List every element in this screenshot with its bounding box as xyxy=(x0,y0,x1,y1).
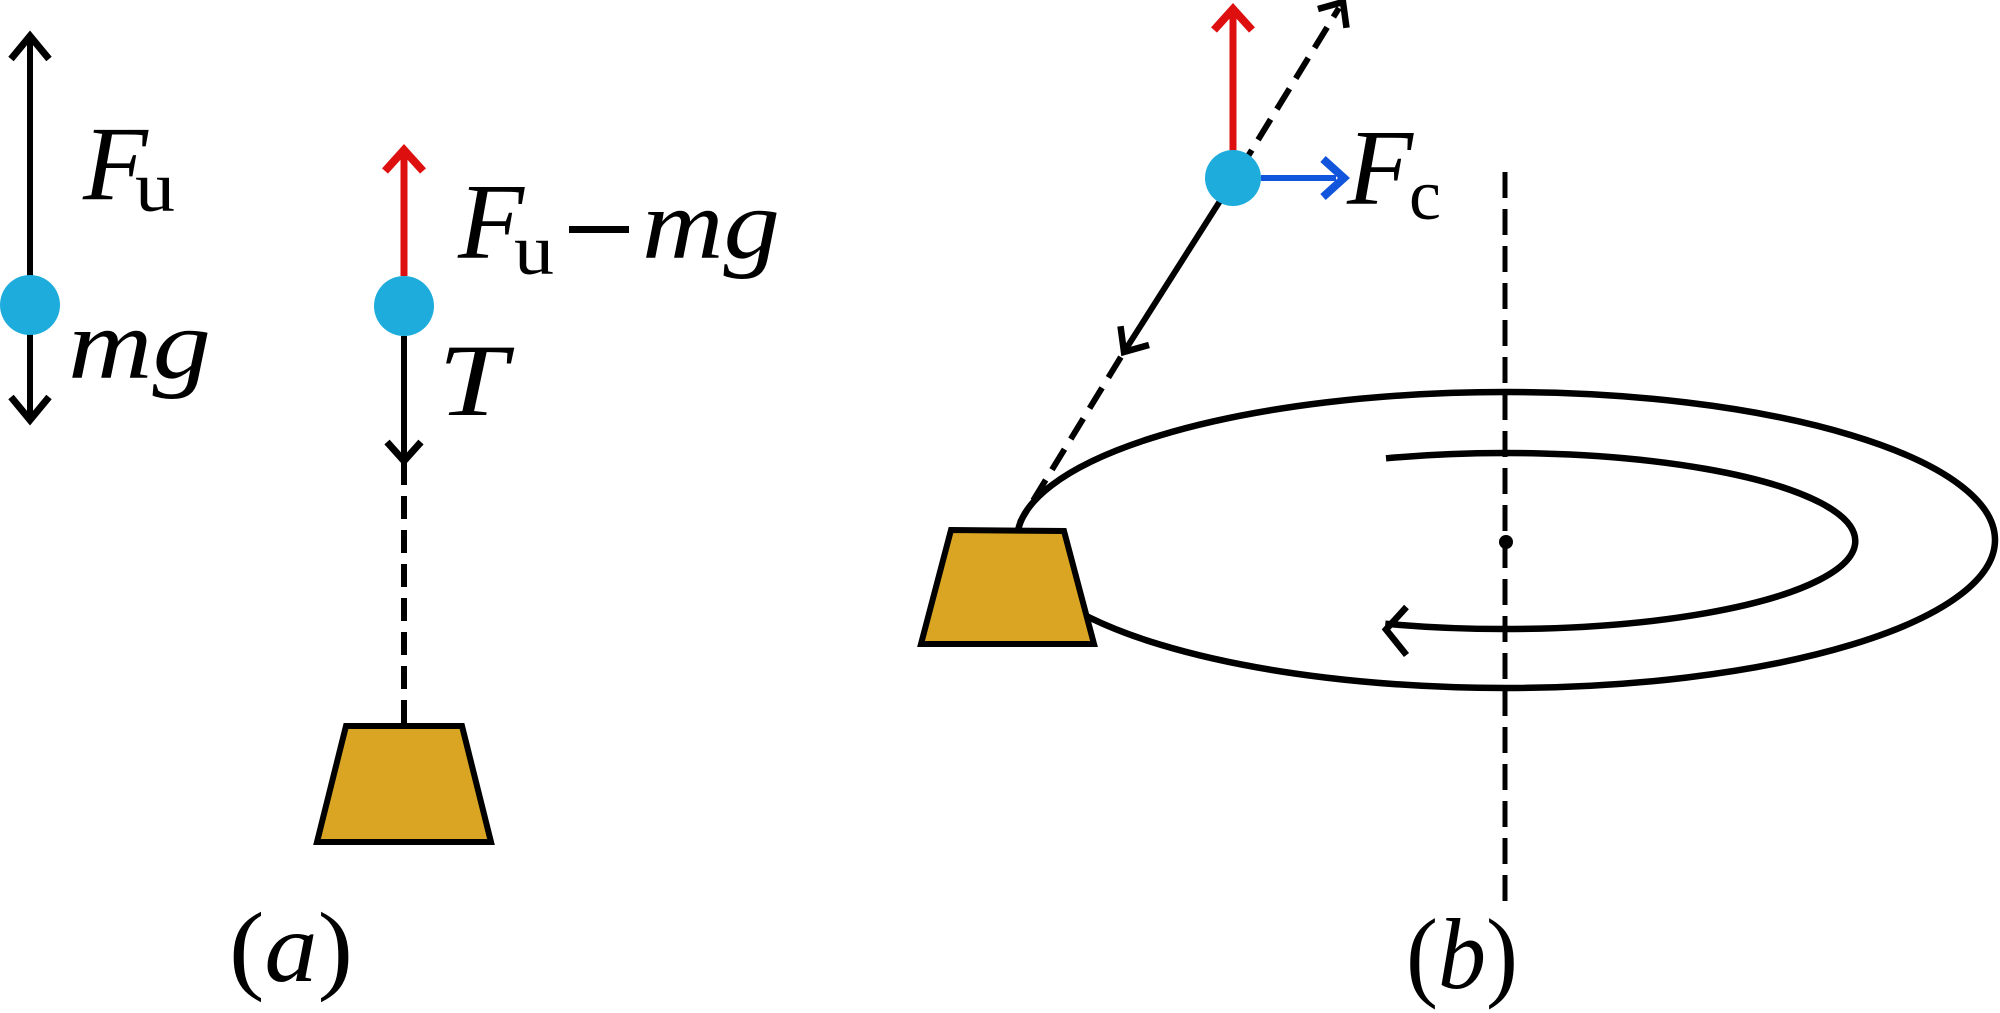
svg-text:(b): (b) xyxy=(1406,898,1518,1010)
dashed string lower (b) xyxy=(1020,352,1124,522)
axis dot (b) xyxy=(1499,535,1513,549)
ball (b) xyxy=(1205,150,1261,206)
arrowhead down-left xyxy=(1121,326,1150,352)
svg-text:c: c xyxy=(1409,155,1441,235)
dashed string (a) xyxy=(401,462,407,724)
axis dashed line (b) xyxy=(1503,172,1508,908)
ball (a) left xyxy=(0,275,60,335)
red arrow (b) xyxy=(1214,9,1252,151)
weight trapezoid (a) xyxy=(317,726,491,842)
svg-text:u: u xyxy=(135,147,175,227)
circular path outer ellipse (b) xyxy=(1017,392,1995,688)
dashed string extension up-right (b) xyxy=(1234,8,1339,179)
svg-text:(a): (a) xyxy=(229,892,353,1003)
arrowhead up-right xyxy=(1318,2,1347,28)
svg-text:mg: mg xyxy=(68,289,211,400)
tension vector solid (b) xyxy=(1124,179,1234,352)
blue arrow Fc (b) xyxy=(1261,159,1344,197)
tension arrow T (a) xyxy=(387,336,421,461)
rotation direction inner arc (b) xyxy=(1385,453,1855,629)
red arrow Fu-mg (a) xyxy=(385,150,423,276)
ball (a) middle xyxy=(374,276,434,336)
rotation arrowhead xyxy=(1386,607,1407,655)
svg-text:T: T xyxy=(438,324,515,438)
svg-text:mg: mg xyxy=(642,169,780,280)
svg-text:F: F xyxy=(1346,109,1414,228)
minus sign xyxy=(569,226,629,233)
double-headed arrow Fu/mg (a) xyxy=(11,36,49,420)
svg-text:u: u xyxy=(514,210,554,290)
weight trapezoid (b) xyxy=(921,530,1094,644)
